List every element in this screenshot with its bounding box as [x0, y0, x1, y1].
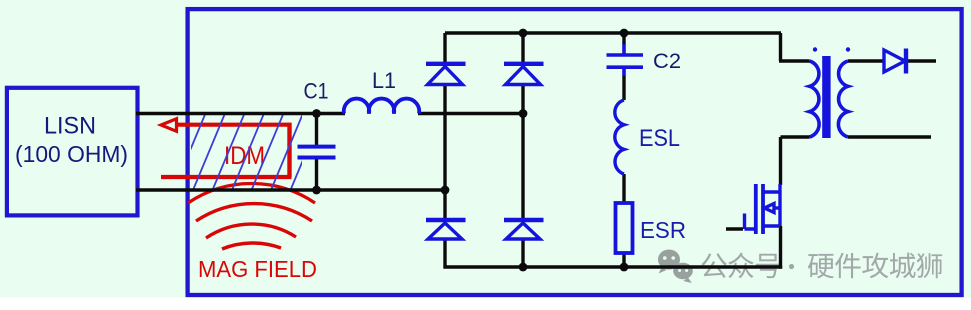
transformer T1 core — [822, 56, 830, 138]
inductor L1 — [344, 99, 419, 114]
MOSFET gate tick — [745, 214, 755, 230]
LISN box — [7, 88, 138, 216]
junction node: C1 top — [312, 109, 321, 118]
IDM loop right segment — [287, 123, 291, 177]
wire: bus to transformer primary top — [779, 33, 810, 61]
wire: L1 to bridge column 2 — [418, 112, 523, 115]
junction node: bottom bus at column 2 — [519, 263, 528, 272]
transformer T1 secondary winding — [838, 61, 848, 137]
MOSFET source lead — [763, 192, 780, 226]
junction node: bottom wire at column 1 — [441, 186, 450, 195]
wire: LISN bottom to bridge column 1 — [136, 188, 446, 191]
MOSFET Q1 — [745, 184, 781, 234]
watermark text "公众号 · 硬件攻城狮" (drawn glyph outlines) — [701, 252, 942, 278]
svg-text:MAG FIELD: MAG FIELD — [198, 256, 317, 282]
wire: secondary top to output diode — [848, 59, 884, 62]
diode D5 (output rectifier) — [884, 49, 906, 74]
enclosure box (converter outline) — [188, 9, 962, 295]
diode D2 (bridge top right) — [504, 64, 544, 85]
MAG FIELD arc 2 — [196, 204, 312, 221]
wire: transformer primary bottom to MOSFET drain — [781, 137, 810, 185]
diode D3 (bridge bottom left) — [426, 220, 466, 239]
hatch area (loop area shading) — [154, 111, 343, 190]
wire: C1 bottom stub — [315, 159, 318, 191]
wire: output diode to load — [906, 59, 936, 62]
IDM loop top segment — [176, 123, 290, 127]
wire: secondary bottom lead — [848, 135, 931, 138]
wire: bridge column 1 — [445, 33, 523, 269]
resistor ESR — [616, 203, 633, 253]
wire: MOSFET gate lead — [726, 227, 743, 230]
svg-text:LISN: LISN — [44, 113, 96, 140]
wire: C2 column stubs — [622, 33, 625, 267]
MOSFET body arrow — [765, 204, 775, 213]
wire: LISN top to L1 — [136, 112, 345, 115]
transformer secondary phase dot — [846, 47, 850, 51]
diode D1 (bridge top left) — [426, 64, 466, 85]
IDM loop arrow head — [161, 119, 177, 132]
MOSFET body lead — [774, 206, 780, 209]
transformer T1 primary winding — [810, 61, 820, 137]
junction node: L1 wire at column 2 — [519, 109, 528, 118]
svg-text:ESR: ESR — [640, 217, 686, 243]
wire: MOSFET source to bottom bus — [779, 226, 782, 269]
MOSFET channel bar — [761, 184, 765, 234]
IDM loop bottom segment — [161, 175, 292, 179]
junction node: top bus at column 2 — [519, 29, 528, 38]
svg-text:C1: C1 — [304, 79, 329, 104]
capacitor C2 — [607, 44, 644, 76]
wire: C1 top stub — [315, 114, 318, 146]
svg-text:ESL: ESL — [639, 125, 680, 152]
inductor ESL — [615, 100, 624, 174]
wire: bottom bus — [523, 265, 782, 268]
MAG FIELD arc 1 — [188, 183, 315, 203]
junction node: top bus at C2 — [620, 29, 629, 38]
transformer primary phase dot — [813, 47, 817, 51]
svg-text:L1: L1 — [372, 68, 396, 93]
wire: top bus — [445, 31, 781, 34]
watermark icon (chat bubbles) — [658, 250, 693, 284]
wire: bridge column 2 — [521, 33, 524, 267]
MAG FIELD arc 4 — [222, 243, 281, 249]
capacitor C1 — [298, 147, 336, 158]
MOSFET gate bar — [754, 184, 758, 234]
MOSFET drain lead — [763, 184, 780, 192]
junction node: bottom bus at C2 — [620, 263, 629, 272]
junction node: C1 bottom — [312, 186, 321, 195]
svg-text:C2: C2 — [653, 49, 681, 73]
svg-text:(100 OHM): (100 OHM) — [15, 141, 128, 167]
MAG FIELD arc 3 — [206, 224, 296, 238]
diode D4 (bridge bottom right) — [504, 220, 544, 239]
